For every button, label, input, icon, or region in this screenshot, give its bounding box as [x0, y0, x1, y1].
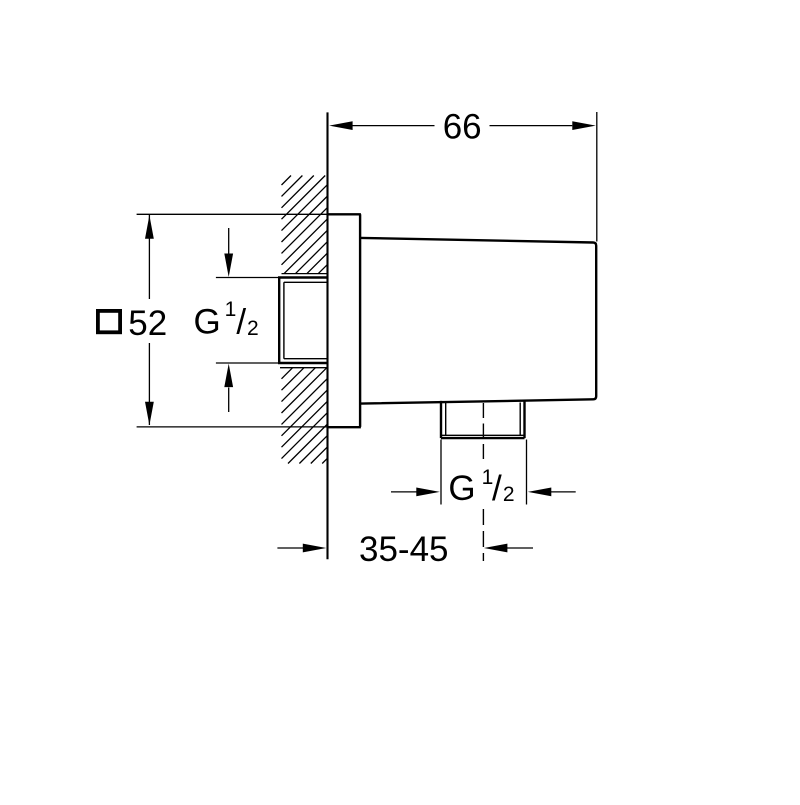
svg-text:35-45: 35-45 — [359, 530, 449, 569]
svg-text:2: 2 — [503, 483, 515, 506]
svg-text:1: 1 — [225, 298, 237, 321]
svg-text:/: / — [492, 469, 502, 508]
svg-text:2: 2 — [247, 317, 259, 340]
svg-text:G: G — [194, 303, 221, 342]
svg-text:G: G — [448, 469, 475, 508]
svg-text:/: / — [236, 303, 246, 342]
svg-text:52: 52 — [128, 304, 167, 343]
svg-text:66: 66 — [443, 108, 482, 147]
